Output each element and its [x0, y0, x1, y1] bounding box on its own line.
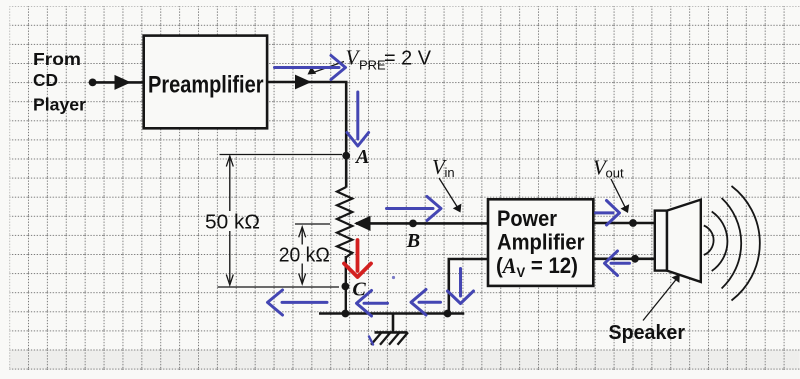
svg-text:PRE: PRE — [359, 58, 386, 73]
svg-text:From: From — [33, 49, 81, 69]
svg-text:Player: Player — [33, 95, 86, 115]
svg-text:Power: Power — [497, 206, 557, 231]
svg-text:out: out — [606, 166, 624, 181]
svg-text:CD: CD — [33, 70, 58, 90]
svg-text:C: C — [352, 279, 366, 301]
svg-text:Speaker: Speaker — [609, 322, 686, 344]
svg-text:50 kΩ: 50 kΩ — [205, 212, 260, 234]
svg-text:20 kΩ: 20 kΩ — [279, 244, 330, 266]
svg-text:(AV = 12): (AV = 12) — [496, 253, 578, 280]
svg-text:A: A — [354, 146, 369, 168]
svg-text:Amplifier: Amplifier — [497, 230, 585, 255]
svg-text:= 2 V: = 2 V — [384, 48, 432, 70]
svg-text:in: in — [445, 165, 455, 180]
svg-text:B: B — [406, 230, 420, 252]
svg-text:Preamplifier: Preamplifier — [148, 72, 264, 99]
